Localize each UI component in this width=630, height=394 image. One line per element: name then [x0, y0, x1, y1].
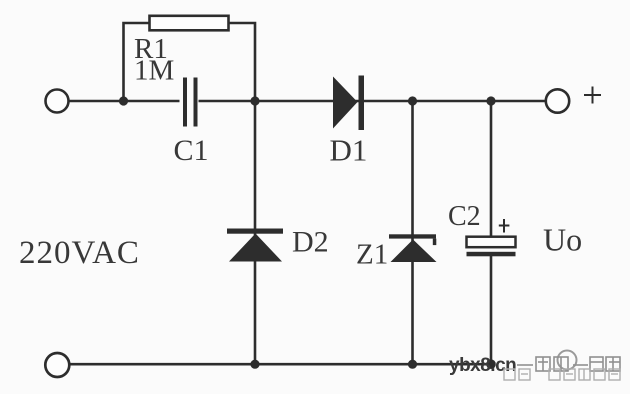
- svg-text:1M: 1M: [134, 55, 174, 87]
- svg-text:220VAC: 220VAC: [19, 235, 140, 271]
- svg-text:Uo: Uo: [543, 222, 582, 258]
- svg-text:D1: D1: [330, 133, 368, 168]
- svg-text:D2: D2: [292, 226, 329, 259]
- svg-text:C1: C1: [174, 134, 209, 167]
- svg-text:C2: C2: [448, 201, 481, 232]
- svg-text:Z1: Z1: [356, 239, 388, 271]
- svg-text:ybx8.cn: ybx8.cn: [449, 355, 516, 376]
